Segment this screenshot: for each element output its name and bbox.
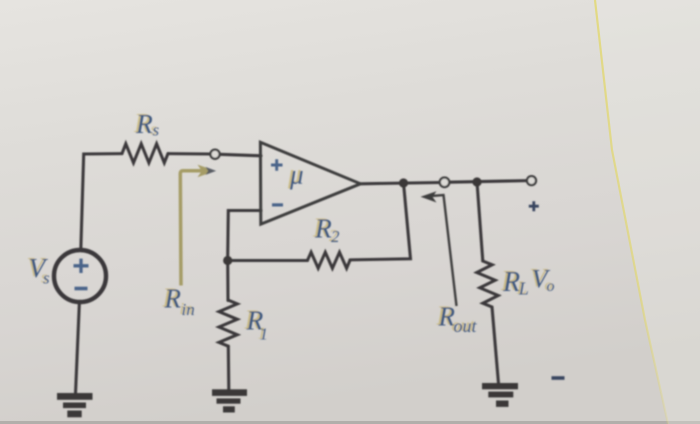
- svg-text:out: out: [454, 316, 478, 336]
- svg-text:R: R: [135, 108, 153, 139]
- Rout arrowhead: [421, 191, 437, 202]
- label Rout: [438, 302, 478, 337]
- Rout measurement arrow: [432, 195, 457, 306]
- svg-text:s: s: [153, 121, 160, 140]
- label Rin: [164, 284, 195, 319]
- junction dot RL node: [472, 177, 481, 186]
- wire Rs to node: [168, 152, 211, 155]
- wire R1 to ground: [227, 346, 231, 390]
- photo bottom edge: [0, 421, 700, 424]
- Rin measurement arrow (olive): [180, 171, 203, 286]
- wire feedback vertical: [350, 183, 411, 260]
- label Rs: [135, 108, 160, 140]
- svg-text:R: R: [502, 267, 520, 298]
- svg-text:o: o: [547, 278, 555, 295]
- Rin arrowhead dark tip: [206, 167, 217, 175]
- wire node to op-amp + input: [220, 154, 262, 156]
- junction dot output node: [399, 178, 408, 187]
- voltage source Vs circle: [54, 250, 106, 302]
- wire output node to right terminal: [449, 181, 527, 183]
- svg-text:in: in: [182, 300, 195, 319]
- wire Vs-top to Rs: [81, 154, 122, 250]
- source + sign: [74, 259, 89, 273]
- wire junction to R2: [228, 259, 308, 262]
- op-amp U1: [260, 142, 360, 224]
- wire RL to ground: [492, 307, 499, 384]
- resistor R1: [219, 300, 237, 346]
- wire junction down to R1: [226, 261, 229, 301]
- yellow crease line: [595, 0, 668, 424]
- svg-text:2: 2: [331, 227, 340, 246]
- svg-text:R: R: [164, 284, 182, 314]
- resistor R2: [308, 252, 351, 268]
- wire RL branch top: [477, 182, 483, 261]
- svg-text:L: L: [518, 279, 529, 299]
- Rin arrowhead: [198, 165, 216, 178]
- wire op-amp output: [361, 183, 441, 184]
- svg-text:μ: μ: [289, 160, 304, 190]
- label Vs: [29, 252, 51, 288]
- open node output terminal: [527, 176, 536, 185]
- output + terminal sign: [529, 201, 539, 211]
- svg-text:s: s: [43, 269, 50, 288]
- lighter page area right of crease: [595, 0, 700, 424]
- wire op-amp - input down to junction: [228, 211, 261, 257]
- label R1: [246, 305, 269, 344]
- svg-text:R: R: [314, 213, 332, 244]
- wire Vs bottom to ground: [76, 302, 80, 394]
- open node output mid: [440, 178, 450, 188]
- open node after Rs: [210, 150, 219, 159]
- op-amp - input sign: [272, 203, 283, 206]
- resistor RL: [477, 261, 498, 307]
- junction dot feedback-R1 node: [223, 256, 232, 265]
- ground for R1: [212, 389, 247, 412]
- ground for RL: [482, 383, 518, 407]
- svg-text:1: 1: [260, 325, 269, 344]
- op-amp + input sign: [271, 159, 283, 171]
- ground for Vs: [57, 393, 93, 417]
- output - terminal sign: [552, 376, 565, 380]
- label R2: [314, 213, 340, 247]
- source - sign: [75, 287, 88, 291]
- resistor Rs: [122, 144, 168, 163]
- label RL: [502, 267, 529, 299]
- label Vo: [532, 264, 555, 296]
